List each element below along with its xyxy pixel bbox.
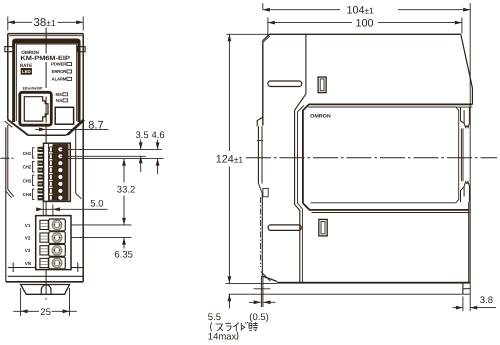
terminal clamp slot 3 xyxy=(50,161,53,166)
RJ45 connector xyxy=(20,92,52,125)
case back lower edge xyxy=(261,194,263,277)
screw head VN xyxy=(52,258,61,267)
terminal block pin column (dark) xyxy=(53,145,68,200)
slider lower edge (hidden chain line) xyxy=(260,197,262,267)
svg-text:33.2: 33.2 xyxy=(117,184,136,195)
terminal pin 7 circle xyxy=(58,188,63,193)
svg-text:14max: 14max xyxy=(208,332,237,343)
lower cover latch claw xyxy=(464,182,469,202)
extension line V2 row xyxy=(68,237,132,239)
5.0 extension line left xyxy=(42,194,44,229)
right side tab xyxy=(78,47,86,52)
upper terminal block body xyxy=(44,143,71,201)
front view case outline xyxy=(8,33,83,35)
channel bracket CH4 xyxy=(33,189,35,199)
terminal pin 5 circle xyxy=(58,174,63,179)
svg-text:3.8: 3.8 xyxy=(480,295,493,306)
svg-text:ERROR: ERROR xyxy=(52,69,68,74)
svg-text:104±1: 104±1 xyxy=(347,4,375,16)
slider bottom edge pair (0.5 refs) xyxy=(260,276,262,307)
front lower vertical edge xyxy=(468,202,470,283)
terminal clamp slot 1 xyxy=(50,147,53,152)
svg-text:3.5: 3.5 xyxy=(136,130,149,141)
clamp box V1 xyxy=(40,220,48,229)
terminal clamp slot 4 xyxy=(50,168,53,173)
side view top edge xyxy=(269,33,461,35)
wire clamp glyph 1 xyxy=(38,147,43,152)
svg-text:38±1: 38±1 xyxy=(34,17,56,29)
clamp box V2 xyxy=(40,233,48,242)
svg-text:V1: V1 xyxy=(25,223,31,228)
svg-text:4.6: 4.6 xyxy=(152,130,165,141)
terminal clamp slot 8 xyxy=(50,195,53,200)
side recess inner contour xyxy=(298,105,305,282)
front upper vertical edge xyxy=(471,88,473,104)
face plate (bezel) thick outline xyxy=(14,40,79,122)
wire clamp glyph 8 xyxy=(38,195,43,200)
front label window square xyxy=(55,107,73,124)
dimension (0.5) xyxy=(249,301,261,303)
dimension 124±1 xyxy=(228,34,230,151)
extension line pin row B xyxy=(60,155,145,157)
right bottom hook xyxy=(77,263,79,273)
screw head V2 xyxy=(52,233,61,242)
slider latch bump xyxy=(263,188,268,196)
slider/foot bottom line 5.5 below xyxy=(229,293,471,295)
side top slot (vent) xyxy=(268,81,302,87)
front centerline (chain line) xyxy=(45,28,47,300)
extension line V1 row xyxy=(68,224,132,226)
side recess outer contour xyxy=(295,34,306,282)
terminal pin 6 circle xyxy=(58,181,63,186)
dimension 8.7 leader xyxy=(35,128,108,130)
svg-text:MS: MS xyxy=(56,92,63,97)
terminal pin 4 circle xyxy=(58,168,63,173)
screw head V3 xyxy=(52,246,61,255)
screw head V1 xyxy=(52,220,61,229)
terminal clamp slot 6 xyxy=(50,182,53,187)
svg-text:124±1: 124±1 xyxy=(216,154,244,166)
svg-text:6.35: 6.35 xyxy=(114,250,132,261)
right inner wall (lower section) xyxy=(75,127,77,194)
svg-text:OMRON: OMRON xyxy=(310,114,331,120)
cover panel face outline (thin octagon) xyxy=(311,107,459,203)
side bottom edge xyxy=(277,282,470,284)
left outer wall (lower section) xyxy=(5,127,7,281)
horizontal chain line (front view left stub) xyxy=(1,157,15,159)
wire clamp glyph 3 xyxy=(38,161,43,166)
right inner wall bottom chamfer xyxy=(76,193,82,199)
case bottom outer line xyxy=(6,281,83,283)
svg-text:EtherNet/IP: EtherNet/IP xyxy=(23,87,43,91)
screw terminal cell VN xyxy=(49,257,66,269)
clamp box V3 xyxy=(40,246,48,255)
front top slope xyxy=(461,34,473,88)
case bottom inner line xyxy=(8,275,83,277)
svg-text:CH2: CH2 xyxy=(23,165,32,170)
lower-left chamfer of upper case section xyxy=(8,120,28,136)
dimension 3.8 xyxy=(462,297,464,312)
svg-text:100: 100 xyxy=(356,17,374,29)
svg-text:V2: V2 xyxy=(25,236,31,241)
terminal pin 8 circle xyxy=(58,195,63,200)
channel bracket CH3 xyxy=(33,175,35,185)
front foot xyxy=(462,283,464,295)
wire clamp glyph 7 xyxy=(38,189,43,194)
dimension 104±1 xyxy=(262,3,264,10)
cover panel thin inner top line xyxy=(308,106,472,108)
left bottom hook xyxy=(12,263,14,273)
small rect slot upper xyxy=(318,77,326,93)
cover panel thick edge (top-left L) xyxy=(303,104,473,203)
left wall bottom chamfer xyxy=(8,189,14,196)
wire clamp glyph 5 xyxy=(38,175,43,180)
left side tab xyxy=(5,47,14,52)
svg-text:LED: LED xyxy=(22,69,31,74)
svg-text:(0.5): (0.5) xyxy=(249,312,269,323)
terminal clamp slot 5 xyxy=(50,175,53,180)
face plate inner thin line xyxy=(17,44,77,121)
svg-text:VN: VN xyxy=(25,261,32,266)
dimension 5.5 xyxy=(228,294,230,308)
svg-text:POWER: POWER xyxy=(51,62,67,67)
back edge xyxy=(262,41,264,126)
svg-text:RATE: RATE xyxy=(20,63,32,68)
124±1 top extension line xyxy=(226,33,269,35)
svg-text:8.7: 8.7 xyxy=(88,119,103,131)
lower stadium slot (vent) xyxy=(268,225,301,231)
extension line pin row C xyxy=(60,158,163,160)
small rect slot lower xyxy=(319,219,327,236)
DIN rail slider trapezoid xyxy=(21,285,70,295)
DIN claw / slider double edge xyxy=(257,126,259,183)
bottom back chamfer xyxy=(262,276,277,281)
horizontal chain line (side view) xyxy=(246,157,497,159)
svg-text:CH1: CH1 xyxy=(23,151,32,156)
5.0 extension line right xyxy=(52,205,54,229)
svg-text:5.0: 5.0 xyxy=(90,199,103,210)
dimension 38±1 (front view width) xyxy=(7,17,9,31)
lower terminal block body xyxy=(36,216,71,270)
svg-text:5.5: 5.5 xyxy=(208,312,221,323)
screw terminal cell V1 xyxy=(49,219,66,231)
bottom edge left extension (for 124 / 5.5 dims) xyxy=(226,282,277,284)
svg-text:V3: V3 xyxy=(25,248,31,253)
screw terminal cell V3 xyxy=(49,244,66,256)
channel bracket CH1 xyxy=(33,148,35,158)
terminal clamp slot 2 xyxy=(50,154,53,159)
terminal pin 1 circle xyxy=(58,147,63,152)
upper DIN claw xyxy=(257,117,263,126)
svg-text:CH4: CH4 xyxy=(23,192,32,197)
channel bracket CH2 xyxy=(33,162,35,172)
clamp box VN xyxy=(40,258,48,267)
DIN slider release tab xyxy=(41,285,51,294)
LED badge xyxy=(21,68,32,74)
case inner bottom shelf xyxy=(8,267,36,269)
upper cover latch claw xyxy=(461,107,465,123)
terminal pin 2 circle xyxy=(58,154,63,159)
back top chamfer xyxy=(263,34,270,40)
cover panel thin inner bottom line xyxy=(312,212,469,214)
svg-text:NS: NS xyxy=(56,98,62,103)
wire clamp glyph 2 xyxy=(38,154,43,159)
dimension 25 xyxy=(20,288,22,316)
slider chamfer xyxy=(258,184,262,194)
left inner wall (lower section) xyxy=(7,125,9,189)
terminal pin 3 circle xyxy=(58,161,63,166)
wire clamp glyph 4 xyxy=(38,168,43,173)
lower-right chamfer with hatched face xyxy=(66,119,85,135)
bottom edge of upper case section xyxy=(28,134,66,136)
svg-text:CH3: CH3 xyxy=(23,178,32,183)
svg-text:ALARM: ALARM xyxy=(52,76,67,81)
screw terminal cell V2 xyxy=(49,232,66,244)
dimension 6.35 xyxy=(123,238,125,249)
extension line pin row A xyxy=(60,148,161,150)
front edge between claws xyxy=(460,128,462,181)
slide-time note (Japanese) xyxy=(211,322,258,332)
terminal clamp slot 7 xyxy=(50,188,53,193)
svg-text:25: 25 xyxy=(40,307,51,318)
terminal block clamp ladder column xyxy=(48,143,50,201)
wire clamp glyph 6 xyxy=(38,182,43,187)
cover panel thick bottom edge xyxy=(303,203,469,210)
slider step line xyxy=(254,288,271,290)
dimension 33.2 xyxy=(123,159,125,183)
dimension 100 xyxy=(267,18,269,37)
